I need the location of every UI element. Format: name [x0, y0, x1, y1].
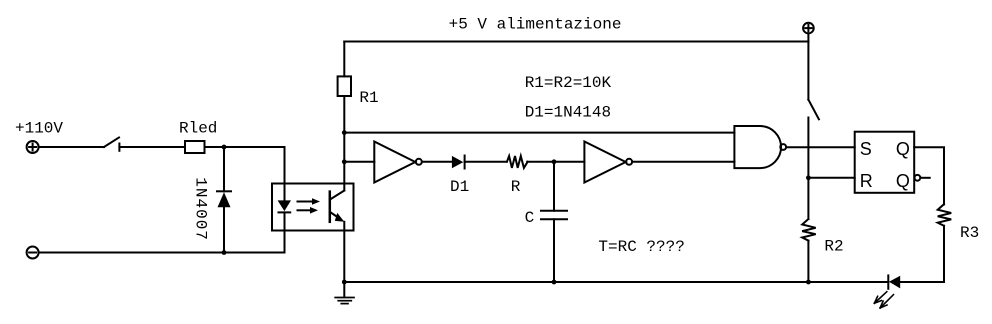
svg-text:1N4007: 1N4007	[191, 177, 209, 241]
svg-text:C: C	[525, 209, 535, 227]
wire	[205, 147, 285, 184]
svg-text:R1: R1	[359, 89, 378, 107]
node junction R2/ground rail	[806, 280, 811, 285]
node junction 1N4007 bottom	[222, 250, 227, 255]
wire to buffer input	[344, 161, 374, 163]
svg-text:R1=R2=10K: R1=R2=10K	[525, 74, 612, 92]
buffer U2 (inverter)	[374, 142, 422, 183]
opto light arrows	[298, 198, 321, 213]
wire to R input	[808, 177, 854, 179]
terminal +5V	[803, 23, 814, 42]
wire NAND out to S	[787, 146, 855, 148]
Qbar bubble	[915, 175, 921, 181]
wire R1 bottom to opto collector	[343, 96, 345, 191]
inverter U3	[584, 142, 632, 183]
wire Q out	[914, 147, 944, 204]
svg-text:Rled: Rled	[179, 119, 217, 137]
wire ground rail	[344, 281, 888, 283]
wire switch top lead	[807, 42, 809, 100]
wire cap bottom lead	[553, 219, 555, 282]
wire	[119, 146, 185, 148]
LED D2	[888, 275, 900, 288]
wire R1 top lead	[343, 42, 345, 77]
svg-text:R: R	[860, 171, 873, 191]
wire	[527, 161, 584, 163]
optocoupler U1 box	[272, 184, 354, 231]
wire switch to R2	[807, 118, 809, 220]
resistor R3	[938, 204, 952, 226]
resistor R2	[802, 219, 816, 241]
resistor Rled	[185, 141, 205, 153]
wire	[465, 161, 507, 163]
svg-text:R2: R2	[824, 238, 843, 256]
svg-text:Q: Q	[896, 171, 910, 191]
wire to NAND top input	[344, 132, 734, 134]
capacitor C	[541, 211, 567, 220]
resistor R	[507, 156, 528, 168]
terminal -110V	[27, 247, 39, 259]
node junction Rled/1N4007	[222, 145, 227, 150]
LED emission arrows	[874, 292, 893, 308]
wire	[223, 147, 225, 191]
wire	[223, 207, 225, 253]
svg-text:D1=1N4148: D1=1N4148	[525, 103, 611, 121]
switch SW2	[808, 100, 819, 120]
wire	[39, 146, 104, 148]
wire R3 bottom to LED anode	[900, 226, 944, 282]
svg-text:R: R	[511, 178, 521, 196]
ground	[335, 282, 354, 304]
wire	[39, 231, 285, 253]
node junction RC	[552, 159, 557, 164]
svg-text:S: S	[860, 139, 872, 159]
wire	[632, 161, 734, 163]
wire Qbar stub	[921, 177, 930, 179]
wire +5V rail	[344, 41, 808, 43]
opto phototransistor	[330, 191, 345, 222]
switch SW1	[104, 138, 119, 151]
svg-text:D1: D1	[450, 178, 469, 196]
NAND gate U4	[734, 126, 786, 168]
wire cap top lead	[553, 162, 555, 211]
latch U5 (SR flip-flop)	[855, 132, 915, 193]
wire	[422, 161, 452, 163]
diode 1N4007	[217, 191, 231, 207]
resistor R1	[338, 76, 351, 96]
svg-text:+110V: +110V	[15, 119, 63, 137]
node junction buffer input	[342, 159, 347, 164]
svg-text:R3: R3	[960, 224, 979, 242]
node junction R input	[806, 175, 811, 180]
node junction cap/ground rail	[552, 280, 557, 285]
svg-text:T=RC ????: T=RC ????	[598, 238, 684, 256]
node junction emitter/ground	[342, 280, 347, 285]
wire R2 bottom	[807, 241, 809, 282]
diode D1	[452, 156, 465, 169]
svg-text:Q: Q	[896, 139, 910, 159]
terminal +110V	[27, 141, 39, 153]
wire emitter down	[343, 222, 345, 282]
opto LED	[278, 184, 291, 231]
svg-text:+5 V alimentazione: +5 V alimentazione	[449, 15, 622, 33]
node junction R1/NAND rail	[342, 130, 347, 135]
